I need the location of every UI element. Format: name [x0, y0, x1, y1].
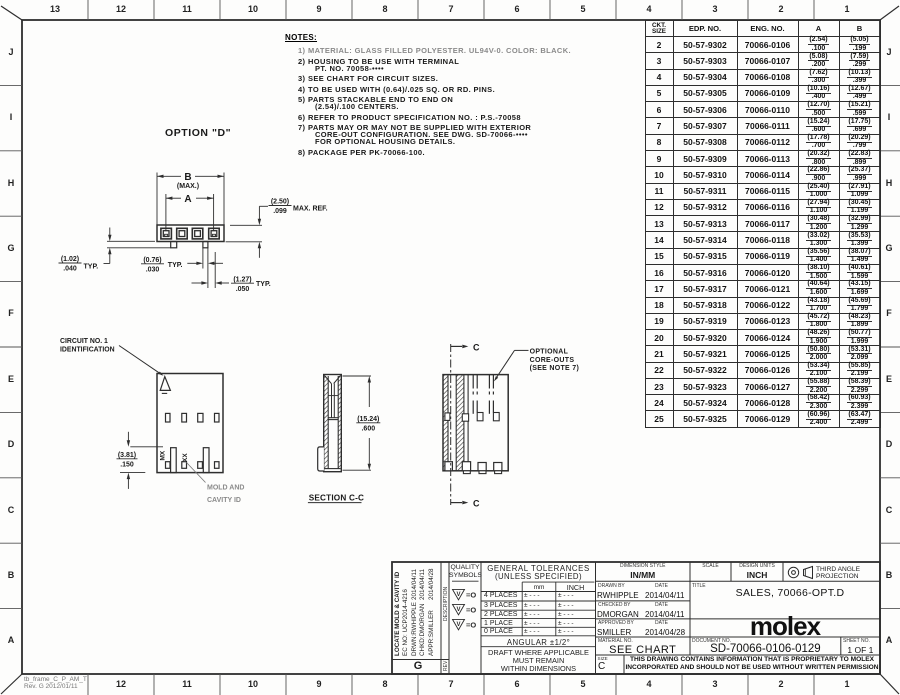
corner chamfer top-left [1, 6, 22, 20]
title block rotated admin column [394, 562, 401, 656]
svg-text:V: V [456, 592, 460, 598]
svg-text:.030: .030 [146, 266, 160, 273]
third angle projection symbol [788, 567, 798, 577]
svg-text:TYP.: TYP. [256, 281, 271, 288]
right area row lines [596, 580, 881, 582]
connector housing body (front view) [157, 225, 224, 242]
top margin column numbers [40, 4, 70, 14]
dimension 1.02/.040 TYP. [107, 240, 155, 242]
side view hatched wall band 1 [443, 375, 448, 471]
svg-text:C: C [473, 499, 480, 509]
core-out slot pair 1 [472, 375, 474, 389]
section C-C wall hatch right [338, 376, 341, 469]
left margin row letters [0, 47, 22, 57]
circuit no.1 identification triangle [160, 377, 170, 391]
svg-text:A: A [184, 194, 191, 205]
svg-text:SECTION C-C: SECTION C-C [309, 494, 364, 503]
notes list [298, 48, 628, 160]
middle slot row (4 slots) [166, 413, 171, 422]
tall bottom slots [171, 448, 177, 473]
bottom white notches [445, 462, 453, 471]
quality col divider [480, 562, 482, 674]
svg-text:V: V [456, 622, 460, 628]
svg-text:CIRCUIT NO. 1: CIRCUIT NO. 1 [60, 338, 108, 345]
tolerance/right divider [595, 562, 597, 674]
design units cell [731, 563, 783, 569]
svg-text:=O: =O [466, 621, 476, 630]
notes heading [285, 33, 317, 42]
svg-text:OPTION "D": OPTION "D" [165, 127, 231, 139]
section C-C ledge lines [328, 395, 338, 397]
drawn/checked/approved rows [598, 583, 625, 589]
dimension 3.81/.150 [130, 446, 163, 448]
svg-text:(1.02): (1.02) [61, 256, 79, 263]
svg-text:TYP.: TYP. [84, 263, 99, 270]
svg-text:(3.81): (3.81) [118, 452, 136, 459]
side view hatched wall band 2 [456, 375, 464, 471]
title block outer box [392, 562, 880, 674]
bottom view housing outline [157, 374, 223, 473]
leader to triangle [119, 346, 162, 375]
svg-text:.150: .150 [120, 461, 134, 468]
side view inner verticals [447, 375, 449, 471]
section C-C inner bottom [325, 468, 341, 470]
svg-text:B: B [184, 172, 191, 183]
svg-text:(1.27): (1.27) [233, 276, 251, 283]
leader core-outs [515, 349, 529, 351]
svg-text:.099: .099 [273, 208, 287, 215]
svg-text:(15.24): (15.24) [357, 416, 379, 423]
corner chamfer bottom-right [880, 674, 899, 694]
svg-text:IDENTIFICATION: IDENTIFICATION [60, 347, 115, 354]
core-out slot pair 2 [488, 375, 490, 389]
bottom notch squares [166, 462, 171, 469]
svg-text:(MAX.): (MAX.) [177, 183, 199, 190]
section arrow bottom C [451, 502, 462, 504]
dimension 1.27/.050 TYP. [207, 269, 209, 289]
circuit sizes chart table [645, 20, 881, 428]
svg-text:MOLD AND: MOLD AND [207, 485, 244, 492]
dimension 2.50/.099 MAX. REF. [230, 224, 262, 226]
svg-text:C: C [473, 342, 480, 352]
svg-text:MX: MX [160, 450, 167, 460]
section C-C inner slot [331, 384, 333, 418]
dimension 15.24/.600 [343, 375, 372, 377]
section C-C top chamfers [325, 376, 332, 384]
terminal cavities (4 square holes) [161, 228, 172, 239]
section arrow top C [451, 345, 462, 347]
size cell [598, 656, 608, 661]
svg-text:.600: .600 [361, 425, 375, 432]
dimension A [165, 194, 167, 231]
corner chamfer top-right [880, 6, 899, 20]
svg-text:=O: =O [466, 591, 476, 600]
svg-text:OPTIONAL: OPTIONAL [530, 349, 569, 356]
svg-text:MAX. REF.: MAX. REF. [293, 206, 328, 213]
frame id text bottom-left [24, 676, 87, 691]
svg-text:(0.76): (0.76) [143, 257, 161, 264]
right area column lines [689, 562, 691, 655]
rev/G row line [392, 659, 449, 661]
svg-text:CORE-OUTS: CORE-OUTS [530, 357, 575, 364]
svg-text:.050: .050 [236, 286, 250, 293]
margin zone tick lines [87, 0, 89, 20]
title cell [692, 583, 706, 589]
side view outline [443, 375, 508, 471]
proprietary note [624, 656, 880, 663]
scale cell [690, 563, 731, 569]
right margin row letters [878, 47, 900, 57]
material no [598, 638, 633, 644]
general tolerances header [481, 564, 596, 573]
section C-C wall hatch left [324, 376, 329, 469]
svg-text:CAVITY ID: CAVITY ID [207, 497, 241, 504]
quality symbols header underline [452, 580, 479, 582]
tolerance table box [522, 581, 594, 583]
molex logo [690, 611, 880, 642]
sheet no [843, 638, 870, 644]
svg-text:=O: =O [466, 606, 476, 615]
quality symbols (3 rows) [453, 589, 465, 600]
dimension B (MAX.) [156, 173, 158, 225]
svg-text:V: V [456, 607, 460, 613]
leader mold/cavity [187, 463, 206, 483]
revision letter G [398, 660, 438, 672]
svg-text:TYP.: TYP. [168, 262, 183, 269]
title block vertical: desc col [440, 562, 442, 674]
svg-text:(SEE NOTE 7): (SEE NOTE 7) [530, 365, 580, 372]
dimension style cell [596, 563, 691, 569]
corner chamfer bottom-left [1, 674, 22, 694]
section cut line C-C (dash-dot) [450, 344, 452, 505]
section C-C foot (left, rounded) [318, 447, 324, 471]
left slot feet [445, 413, 450, 421]
pegs below side view [463, 471, 470, 474]
svg-text:XX: XX [182, 453, 189, 462]
dimension 0.76/.030 TYP. [202, 248, 204, 269]
section C-C outline [324, 375, 342, 472]
bottom margin column numbers [106, 679, 136, 689]
mounting tabs below body [171, 242, 177, 248]
svg-text:(2.50): (2.50) [271, 199, 289, 206]
third angle projection text [816, 566, 860, 573]
svg-text:.040: .040 [63, 266, 77, 273]
document no [692, 638, 731, 644]
quality symbols header [449, 564, 481, 571]
tolerance rows [484, 592, 517, 599]
section C-C inner cavity walls [327, 376, 329, 469]
angular row bottom [481, 646, 596, 648]
